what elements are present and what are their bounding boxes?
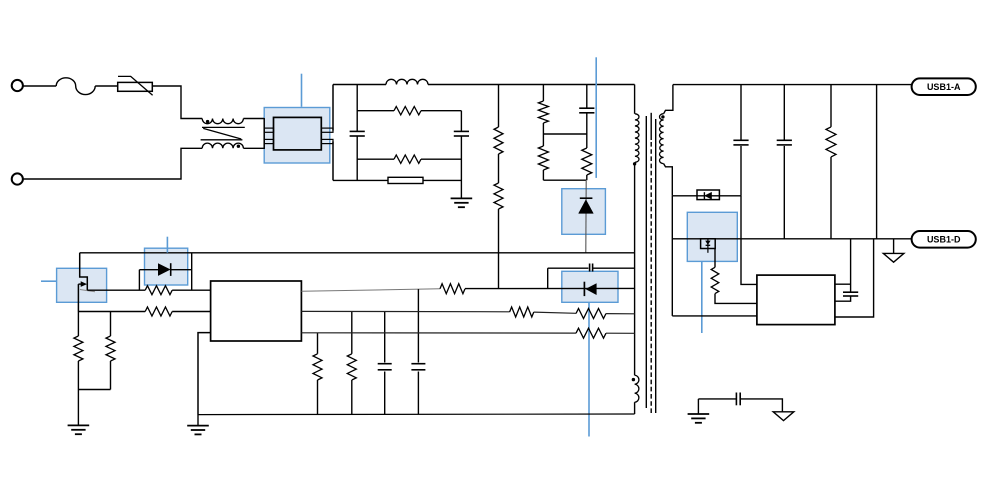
annotation lead to clamp xyxy=(595,57,597,178)
wire primary ground rail xyxy=(198,413,635,416)
wire output sense column xyxy=(876,85,878,239)
wire Q1 drain row xyxy=(87,289,145,291)
resistor R17 xyxy=(576,309,606,319)
wire ground to C7 xyxy=(698,398,736,400)
wire between R4 and R5 xyxy=(498,154,500,183)
wire bottom return rail xyxy=(333,179,461,181)
transistor Q1 xyxy=(78,253,95,312)
wire T1 primary bottom to drain node xyxy=(634,162,636,375)
secondary controller U2 xyxy=(757,275,835,325)
aux winding polarity dot xyxy=(632,378,635,381)
annotation lead below U3 xyxy=(701,261,703,333)
gate diode D3 highlight box xyxy=(145,248,188,285)
T1 core line right xyxy=(655,119,657,413)
wire R2 to right column xyxy=(421,158,461,160)
wire R14 to opto U4 xyxy=(465,287,635,289)
wire C4 top xyxy=(740,85,742,141)
choke L1 core xyxy=(201,127,245,139)
optocoupler U4 highlight box xyxy=(562,271,618,302)
bridge BR1 pin stub - xyxy=(321,139,333,143)
terminal J1 (AC line) xyxy=(12,80,23,91)
resistor R14 xyxy=(440,284,465,294)
wire row to R2 xyxy=(357,158,394,160)
wire R15 column bottom xyxy=(351,380,353,414)
wire Q1 source row left xyxy=(78,311,145,313)
wire divider chain top xyxy=(498,85,500,128)
wire C4 bottom to D2 node xyxy=(740,146,742,196)
wire snubber left top xyxy=(542,85,544,102)
resistor R19 xyxy=(145,307,172,316)
terminal J2 (AC neutral) xyxy=(12,173,23,184)
wire U3 to R10 xyxy=(714,249,716,268)
wire R11 to U1 pin1 xyxy=(172,289,210,291)
annotation lead below opto xyxy=(588,302,590,436)
wire snubber cap top xyxy=(586,85,588,109)
wire clamp node horizontal xyxy=(543,133,586,135)
wire R1 to right column xyxy=(421,110,461,112)
fuse F1 xyxy=(56,78,95,95)
terminal USB1-D xyxy=(912,231,976,248)
wire bridge + to DC rail xyxy=(332,85,334,131)
terminal USB1-A xyxy=(912,78,976,95)
bridge rectifier BR1 body xyxy=(274,117,322,149)
wire R5 down to node FB xyxy=(498,209,500,289)
resistor R15 xyxy=(347,354,356,380)
optocoupler U4 transistor-diode xyxy=(584,282,596,296)
inductor L2 xyxy=(386,79,428,84)
varistor RV1 (thermistor symbol) xyxy=(118,76,153,95)
wire D2 node down to U2 pin1 xyxy=(741,196,757,285)
secondary shunt regulator U3 highlight box xyxy=(687,212,737,261)
resistor R4 xyxy=(494,127,503,154)
wire secondary left column xyxy=(671,196,673,316)
transformer T1 primary winding xyxy=(635,114,639,163)
wire R13 leg bottom xyxy=(110,361,112,390)
bridge BR1 pin stub + xyxy=(321,128,333,132)
wire U1 GND pin xyxy=(198,333,211,415)
choke L1 top winding polarity dot xyxy=(206,120,209,123)
TVS diode D1 highlight box xyxy=(562,189,606,235)
wire D3 anode stub xyxy=(139,270,158,291)
resistor R18 xyxy=(576,328,606,338)
wire U2 pin3 to return rail xyxy=(672,315,757,317)
wire R12 leg top xyxy=(77,312,79,337)
wire R20 column bottom xyxy=(317,380,319,414)
wire R18 to aux node xyxy=(606,332,635,334)
wire clamp junction vertical xyxy=(547,268,549,288)
wire T1 secondary bottom lead xyxy=(664,164,673,196)
capacitor C10 xyxy=(590,264,593,272)
transformer T1 secondary winding xyxy=(660,114,664,164)
ground (secondary chassis) xyxy=(773,412,794,421)
resistor R1 xyxy=(394,107,421,115)
capacitor C8 break xyxy=(417,363,420,372)
primary controller U1 xyxy=(211,281,302,341)
wire R10 to U2 pin2 xyxy=(715,294,757,304)
wire secondary low side xyxy=(672,195,697,197)
T1 core line center (dashed) xyxy=(650,113,652,414)
wire C5 top xyxy=(783,85,785,141)
wire C6 bottom to U2 xyxy=(835,296,851,301)
svg-text:USB1-D: USB1-D xyxy=(927,235,961,245)
wire U1 gate drive (to opto) xyxy=(301,289,440,292)
capacitor C4 xyxy=(733,140,748,145)
wire R9 top xyxy=(830,85,832,127)
wire clamp to primary node (through D1) xyxy=(585,180,587,253)
wire U2 right pin3 up to rail xyxy=(835,239,874,317)
wire secondary top rail (node VOUT) xyxy=(673,84,912,86)
wire filter left column xyxy=(356,85,358,181)
wire choke bottom to bridge xyxy=(243,147,264,149)
wire D3 cathode to rail A xyxy=(171,253,192,290)
wire legs connector xyxy=(78,389,110,391)
resistor R10 xyxy=(711,267,719,293)
output diode D2 xyxy=(697,192,719,199)
capacitor C6 xyxy=(843,292,858,296)
wire C6 column xyxy=(850,239,852,292)
wire aux sense row xyxy=(301,310,509,312)
resistor R6 xyxy=(538,101,548,123)
wire filter right column xyxy=(460,111,462,199)
ground (primary DC return) xyxy=(451,198,473,207)
wire J1 to fuse F1 xyxy=(23,85,56,87)
wire DC top rail right (node DC+) xyxy=(428,84,635,86)
choke L1 bottom winding polarity dot xyxy=(237,145,240,148)
wire R9 bottom xyxy=(830,157,832,239)
switch transistor Q1 highlight box xyxy=(57,268,107,302)
resistor R16 xyxy=(510,307,534,317)
resistor R12 xyxy=(74,336,83,361)
resistor R20 xyxy=(313,354,322,380)
wire U2 right pin1 to C6 xyxy=(835,283,851,285)
resistor R9 xyxy=(826,127,836,157)
wire R16 to R17 xyxy=(534,312,576,313)
common-mode choke L1 top winding xyxy=(202,119,243,124)
gate diode D3 xyxy=(158,263,171,276)
capacitor C9 xyxy=(378,364,392,370)
wire F1 to RV1 xyxy=(95,85,118,87)
bridge BR1 pin stub AC1 xyxy=(264,128,273,132)
capacitor C2 xyxy=(454,131,469,136)
wire C7 to chassis ground xyxy=(740,399,782,412)
wire clamp bottom horizontal xyxy=(543,179,586,181)
annotation lead to BR1 xyxy=(301,74,303,107)
TVS diode D1 xyxy=(579,198,594,213)
capacitor C5 xyxy=(777,140,792,145)
resistor R13 xyxy=(106,336,115,361)
resistor R8 xyxy=(582,134,592,180)
wire R12 leg bottom xyxy=(77,361,79,425)
bridge BR1 pin stub AC2 xyxy=(264,139,273,143)
wire DC rail to primary top xyxy=(634,85,636,114)
wire rail A (Q1 top to drain node) xyxy=(80,252,635,254)
wire C10 row left xyxy=(548,267,589,269)
ground (Q1 source divider) xyxy=(68,425,90,434)
wire bridge left bus xyxy=(263,118,265,149)
wire choke top to bridge xyxy=(243,118,264,120)
capacitor C9 break xyxy=(383,363,386,372)
output diode D2 box xyxy=(697,190,719,200)
capacitor C3 xyxy=(579,108,594,113)
wire secondary return rail (node USB-D) xyxy=(672,238,911,240)
aux winding T1b xyxy=(635,375,639,402)
bridge rectifier BR1 highlight box xyxy=(264,108,330,164)
wire R17 to aux node xyxy=(606,313,635,315)
wire C5 bottom xyxy=(783,146,785,239)
annotation lead to Q1 xyxy=(41,280,57,282)
wire bridge - to return rail xyxy=(332,142,334,181)
resistor R2 xyxy=(394,155,421,163)
wire J2 to choke L1 bottom xyxy=(23,148,202,179)
T1 secondary polarity dot xyxy=(661,115,664,118)
wire row to R1 xyxy=(357,110,394,112)
wire D2 to C4 node xyxy=(719,195,741,197)
T1 primary polarity dot xyxy=(633,162,636,165)
T1 core line left xyxy=(645,116,647,408)
wire C9 column xyxy=(384,312,386,415)
shunt regulator U3 body xyxy=(701,239,716,249)
capacitor C8 xyxy=(411,364,425,370)
resistor R3 (box style) xyxy=(388,177,423,183)
wire R6 to clamp node xyxy=(542,123,544,134)
capacitor C1 xyxy=(350,131,365,136)
wire T1 secondary top lead xyxy=(664,85,673,114)
common-mode choke L1 bottom winding xyxy=(202,143,243,148)
wire RV1 to choke L1 top xyxy=(152,86,202,119)
ground (secondary, signal) xyxy=(883,239,904,262)
wire R15 column top xyxy=(351,312,353,354)
wire aux winding bottom xyxy=(634,402,636,414)
wire R13 leg top xyxy=(110,312,112,337)
wire FB node vertical xyxy=(417,289,419,414)
Y-capacitor C7 xyxy=(736,393,740,406)
ground (U1) xyxy=(187,415,209,435)
wire C10 row right xyxy=(593,267,635,269)
shunt regulator U3 zener symbol xyxy=(705,239,710,253)
ground (primary chassis) xyxy=(688,399,710,423)
resistor R7 xyxy=(538,134,548,180)
wire vcc row xyxy=(301,332,576,334)
wire DC top rail left xyxy=(333,84,386,86)
annotation lead to D3 xyxy=(166,237,168,253)
wire R19 to U1 pin2 xyxy=(172,311,210,313)
svg-text:USB1-A: USB1-A xyxy=(927,82,961,92)
resistor R5 xyxy=(494,183,503,209)
wire C3 to clamp node xyxy=(586,113,588,134)
wire R20 column top xyxy=(317,333,319,354)
resistor R11 xyxy=(145,286,172,295)
